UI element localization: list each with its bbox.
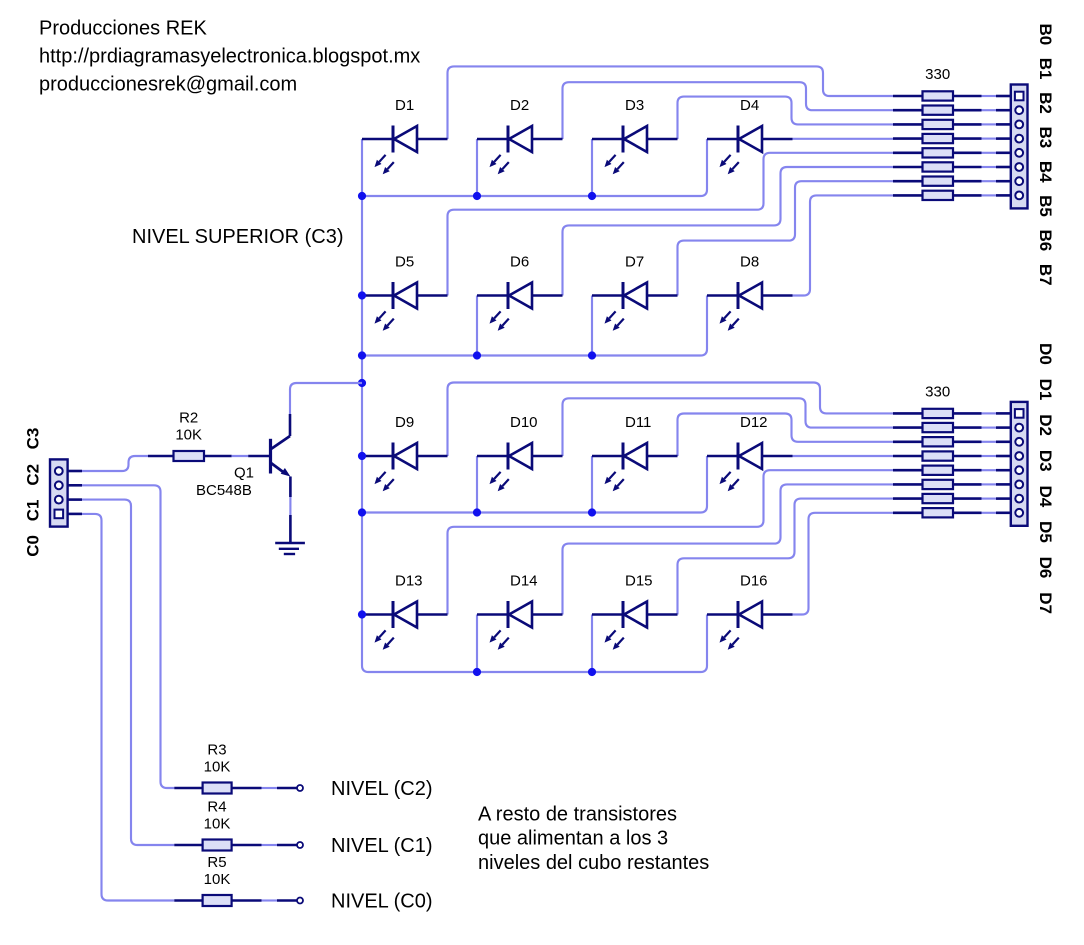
svg-text:B5: B5 xyxy=(1036,195,1055,217)
svg-text:D7: D7 xyxy=(1036,592,1055,614)
resistor 330 #7 (B pack) xyxy=(893,177,982,186)
wire trunk (collector net, x=362) with row-4 bus xyxy=(362,139,707,672)
svg-text:http://prdiagramasyelectronica: http://prdiagramasyelectronica.blogspot.… xyxy=(39,46,420,68)
wire D3 anode to 330 resistor xyxy=(678,97,894,139)
svg-text:BC548B: BC548B xyxy=(196,482,252,499)
svg-text:A resto de transistores: A resto de transistores xyxy=(478,804,677,826)
svg-text:NIVEL SUPERIOR (C3): NIVEL SUPERIOR (C3) xyxy=(132,226,344,248)
LED D15 xyxy=(592,573,678,650)
svg-text:D2: D2 xyxy=(1036,414,1055,436)
svg-text:NIVEL (C0): NIVEL (C0) xyxy=(331,891,433,913)
wire resistor to connector pin 1 (D pack) xyxy=(982,412,1011,414)
wire R3 to terminal xyxy=(262,787,297,789)
svg-text:D12: D12 xyxy=(740,414,768,431)
wire D14 cathode to bus row 4 xyxy=(476,615,478,673)
header text: Producciones REK / blog url / email xyxy=(39,18,420,96)
svg-text:D6: D6 xyxy=(510,254,529,271)
junction dot (362,456) xyxy=(358,452,366,460)
svg-text:C0: C0 xyxy=(24,535,43,557)
connector D0-D7 (8-pin header) xyxy=(1011,402,1028,526)
svg-text:D7: D7 xyxy=(625,254,644,271)
wire Q1 emitter xyxy=(289,497,291,515)
svg-text:NIVEL (C2): NIVEL (C2) xyxy=(331,778,433,800)
svg-text:R4: R4 xyxy=(207,799,226,816)
svg-text:D3: D3 xyxy=(625,97,644,114)
svg-text:B3: B3 xyxy=(1036,126,1055,148)
svg-text:R2: R2 xyxy=(179,410,198,427)
junction dot (477,196) xyxy=(473,192,481,200)
resistor 330 #1 (D pack) xyxy=(893,409,982,418)
resistor R3 10K xyxy=(174,742,261,794)
wire D12 anode to 330 resistor xyxy=(793,455,894,457)
transistor Q1 BC548B (NPN) xyxy=(196,414,290,499)
LED D10 xyxy=(477,414,563,491)
LED D9 xyxy=(362,414,448,491)
svg-text:que alimentan a los 3: que alimentan a los 3 xyxy=(478,828,668,850)
wire resistor to connector pin 8 (D pack) xyxy=(982,512,1011,514)
svg-text:B4: B4 xyxy=(1036,161,1055,183)
wire D15 anode to 330 resistor xyxy=(678,499,894,615)
wire D3 cathode to bus row 1 xyxy=(591,139,593,196)
resistor 330 #2 (D pack) xyxy=(893,423,982,432)
wire resistor to connector pin 7 (D pack) xyxy=(982,498,1011,500)
wire resistor to connector pin 2 (D pack) xyxy=(982,427,1011,429)
resistor 330 #4 (B pack) xyxy=(893,134,982,143)
wire R2 to Q1 base xyxy=(232,455,249,457)
svg-text:Producciones REK: Producciones REK xyxy=(39,18,208,40)
junction dot (592,512.5) xyxy=(588,508,596,516)
connector B0-B7 (8-pin header) xyxy=(1011,85,1028,209)
ground xyxy=(275,543,305,554)
svg-text:D11: D11 xyxy=(625,414,651,431)
LED D3 xyxy=(592,97,678,174)
junction dot (362,614.5) xyxy=(358,610,366,618)
svg-text:D13: D13 xyxy=(395,573,423,590)
wire resistor to connector pin 4 (D pack) xyxy=(982,455,1011,457)
svg-text:B6: B6 xyxy=(1036,229,1055,251)
wire R4 to terminal xyxy=(262,844,297,846)
svg-text:D15: D15 xyxy=(625,573,653,590)
wire resistor to connector pin 6 (B pack) xyxy=(982,166,1011,168)
wire D8 anode to 330 resistor xyxy=(793,195,894,295)
wire emitter to ground xyxy=(289,515,292,542)
svg-text:produccionesrek@gmail.com: produccionesrek@gmail.com xyxy=(39,74,297,96)
wire D10 cathode to bus row 3 xyxy=(476,456,478,513)
LED D12 xyxy=(707,414,793,491)
wire D10 anode to 330 resistor xyxy=(563,398,894,456)
svg-text:C2: C2 xyxy=(24,464,43,486)
wire resistor to connector pin 8 (B pack) xyxy=(982,194,1011,196)
LED D4 xyxy=(707,97,793,174)
wire D11 cathode to bus row 3 xyxy=(591,456,593,513)
wire D5 anode to 330 resistor xyxy=(448,153,894,296)
junction dot (362,196) xyxy=(358,192,366,200)
wire resistor to connector pin 1 (B pack) xyxy=(982,95,1011,97)
wire resistor to connector pin 2 (B pack) xyxy=(982,109,1011,111)
resistor R2 10K xyxy=(148,410,232,462)
wire R5 to terminal xyxy=(262,899,297,901)
svg-text:niveles del cubo restantes: niveles del cubo restantes xyxy=(478,852,709,874)
wire D7 anode to 330 resistor xyxy=(678,181,894,295)
terminal NIVEL (C0) xyxy=(297,898,303,904)
resistor 330 #8 (D pack) xyxy=(893,508,982,517)
connector C0-C3 (4-pin header) xyxy=(50,459,82,526)
svg-text:B2: B2 xyxy=(1036,92,1055,114)
svg-text:D16: D16 xyxy=(740,573,768,590)
wire D15 cathode to bus row 4 xyxy=(591,615,593,673)
wire bus row 1 xyxy=(362,139,707,196)
junction dot (477,355.5) xyxy=(473,351,481,359)
junction dot (477,512.5) xyxy=(473,508,481,516)
svg-text:D4: D4 xyxy=(1036,485,1055,507)
svg-text:D4: D4 xyxy=(740,97,759,114)
LED D14 xyxy=(477,573,563,650)
LED D16 xyxy=(707,573,793,650)
junction dot (592,672) xyxy=(588,668,596,676)
junction dot (362,355.5) xyxy=(358,351,366,359)
svg-text:D8: D8 xyxy=(740,254,759,271)
wire resistor to connector pin 5 (B pack) xyxy=(982,152,1011,154)
svg-text:D3: D3 xyxy=(1036,450,1055,472)
wire C pin to R3 xyxy=(82,485,174,788)
svg-text:NIVEL (C1): NIVEL (C1) xyxy=(331,835,433,857)
LED D13 xyxy=(362,573,448,650)
wire D1 anode to 330 resistor xyxy=(448,66,894,139)
svg-text:R5: R5 xyxy=(207,854,226,871)
resistor 330 #5 (B pack) xyxy=(893,148,982,157)
wire resistor to connector pin 4 (B pack) xyxy=(982,138,1011,140)
terminal NIVEL (C1) xyxy=(297,842,303,848)
resistor 330 #8 (B pack) xyxy=(893,191,982,200)
junction dot (592,355.5) xyxy=(588,351,596,359)
resistor 330 #4 (D pack) xyxy=(893,451,982,460)
svg-text:D5: D5 xyxy=(1036,521,1055,543)
svg-text:D2: D2 xyxy=(510,97,529,114)
resistor R5 10K xyxy=(174,854,261,906)
wire D6 cathode to bus row 2 xyxy=(476,296,478,356)
LED D8 xyxy=(707,254,793,331)
wire bus row 3 xyxy=(362,456,707,513)
svg-text:B0: B0 xyxy=(1036,23,1055,45)
svg-text:D9: D9 xyxy=(395,414,414,431)
junction dot (362,295.5) xyxy=(358,291,366,299)
svg-text:330: 330 xyxy=(925,66,950,83)
svg-text:10K: 10K xyxy=(175,427,202,444)
wire D7 cathode to bus row 2 xyxy=(591,296,593,356)
wire D2 cathode to bus row 1 xyxy=(476,139,478,196)
svg-text:D5: D5 xyxy=(395,254,414,271)
svg-text:D1: D1 xyxy=(1036,379,1055,401)
wire resistor to connector pin 7 (B pack) xyxy=(982,180,1011,182)
LED D2 xyxy=(477,97,563,174)
resistor 330 #3 (B pack) xyxy=(893,120,982,129)
wire bus row 2 xyxy=(362,296,707,356)
svg-text:D10: D10 xyxy=(510,414,538,431)
wire D9 anode to 330 resistor xyxy=(448,383,894,457)
wire resistor to connector pin 3 (B pack) xyxy=(982,123,1011,125)
svg-text:D1: D1 xyxy=(395,97,414,114)
wire resistor to connector pin 5 (D pack) xyxy=(982,469,1011,471)
note text: A resto de transistores... xyxy=(478,804,709,874)
wire resistor to connector pin 3 (D pack) xyxy=(982,441,1011,443)
LED D1 xyxy=(362,97,448,174)
svg-text:Q1: Q1 xyxy=(234,465,254,482)
junction dot (362,383) xyxy=(358,379,366,387)
resistor 330 #1 (B pack) xyxy=(893,91,982,100)
resistor 330 #3 (D pack) xyxy=(893,437,982,446)
wire C pin to R4 xyxy=(82,500,174,845)
LED D5 xyxy=(362,254,448,331)
wire C3 pin to R2 xyxy=(82,456,148,471)
wire D14 anode to 330 resistor xyxy=(563,484,894,614)
svg-text:D0: D0 xyxy=(1036,343,1055,365)
svg-text:B1: B1 xyxy=(1036,58,1055,80)
junction dot (592,196) xyxy=(588,192,596,200)
svg-text:D14: D14 xyxy=(510,573,538,590)
svg-text:330: 330 xyxy=(925,384,950,401)
terminal NIVEL (C2) xyxy=(297,785,303,791)
LED D6 xyxy=(477,254,563,331)
resistor 330 #5 (D pack) xyxy=(893,466,982,475)
wire C pin to R5 xyxy=(82,514,174,901)
svg-text:10K: 10K xyxy=(204,759,231,776)
svg-text:C3: C3 xyxy=(24,428,43,450)
svg-text:10K: 10K xyxy=(204,816,231,833)
resistor 330 #6 (B pack) xyxy=(893,162,982,171)
resistor 330 #2 (B pack) xyxy=(893,106,982,115)
svg-text:C1: C1 xyxy=(24,500,43,522)
resistor R4 10K xyxy=(174,799,261,851)
LED D11 xyxy=(592,414,678,491)
junction dot (362,512.5) xyxy=(358,508,366,516)
wire D6 anode to 330 resistor xyxy=(563,167,894,296)
resistor 330 #7 (D pack) xyxy=(893,494,982,503)
wire D4 anode to 330 resistor xyxy=(793,138,894,140)
wire Q1 collector to trunk xyxy=(290,383,362,414)
svg-text:B7: B7 xyxy=(1036,264,1055,286)
wire D11 anode to 330 resistor xyxy=(678,414,894,457)
wire resistor to connector pin 6 (D pack) xyxy=(982,483,1011,485)
wire D13 anode to 330 resistor xyxy=(448,470,894,614)
wire D16 anode to 330 resistor xyxy=(793,513,894,615)
svg-text:R3: R3 xyxy=(207,742,226,759)
LED D7 xyxy=(592,254,678,331)
resistor 330 #6 (D pack) xyxy=(893,480,982,489)
svg-text:10K: 10K xyxy=(204,871,231,888)
wire D2 anode to 330 resistor xyxy=(563,82,894,139)
svg-text:D6: D6 xyxy=(1036,557,1055,579)
junction dot (477,672) xyxy=(473,668,481,676)
